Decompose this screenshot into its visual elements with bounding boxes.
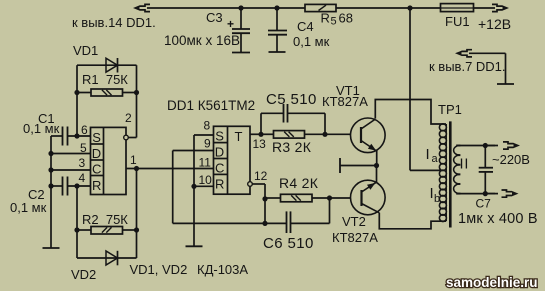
svg-text:VT2: VT2 <box>342 214 366 229</box>
svg-text:a: a <box>432 153 439 165</box>
svg-text:13: 13 <box>253 137 267 151</box>
svg-text:ТР1: ТР1 <box>438 102 462 117</box>
svg-text:T: T <box>235 129 243 144</box>
svg-text:R: R <box>215 177 224 192</box>
svg-text:3: 3 <box>79 156 86 170</box>
svg-text:~220В: ~220В <box>492 152 530 167</box>
svg-text:C: C <box>92 162 101 177</box>
svg-text:R: R <box>321 11 330 26</box>
svg-text:C6 510: C6 510 <box>263 235 314 252</box>
svg-text:4: 4 <box>79 171 86 185</box>
svg-text:R4 2К: R4 2К <box>279 175 319 191</box>
svg-text:к выв.7 DD1.: к выв.7 DD1. <box>429 59 506 74</box>
svg-text:R2 75К: R2 75К <box>82 212 128 227</box>
svg-text:D: D <box>92 146 101 161</box>
svg-text:C5 510: C5 510 <box>266 91 317 108</box>
svg-text:VD1: VD1 <box>73 43 98 58</box>
svg-text:2: 2 <box>125 111 132 125</box>
svg-text:D: D <box>215 145 224 160</box>
svg-text:R: R <box>92 178 101 193</box>
svg-text:S: S <box>215 129 224 144</box>
svg-text:+: + <box>227 17 234 31</box>
svg-text:C4: C4 <box>297 19 314 34</box>
svg-text:10: 10 <box>199 173 213 187</box>
svg-text:C7: C7 <box>476 197 492 211</box>
svg-text:КТ827А: КТ827А <box>322 94 368 109</box>
svg-text:II: II <box>460 157 470 173</box>
svg-text:100мк x 16В: 100мк x 16В <box>164 33 240 48</box>
svg-text:DD1 К561ТМ2: DD1 К561ТМ2 <box>167 98 255 113</box>
svg-text:КД-103А: КД-103А <box>197 262 248 277</box>
svg-text:5: 5 <box>80 141 87 155</box>
svg-text:VD1, VD2: VD1, VD2 <box>130 262 188 277</box>
svg-text:FU1: FU1 <box>445 14 470 29</box>
svg-text:b: b <box>434 193 440 205</box>
svg-text:12: 12 <box>254 169 268 183</box>
svg-text:C: C <box>215 161 224 176</box>
svg-text:C3: C3 <box>206 10 223 25</box>
svg-text:+12В: +12В <box>478 16 511 32</box>
svg-text:5: 5 <box>331 16 337 28</box>
svg-text:КТ827А: КТ827А <box>332 230 378 245</box>
svg-text:R1 75К: R1 75К <box>82 72 128 87</box>
svg-text:9: 9 <box>204 137 211 151</box>
svg-text:1мк x 400 В: 1мк x 400 В <box>458 211 538 227</box>
svg-text:0,1 мк: 0,1 мк <box>10 200 47 215</box>
svg-text:1: 1 <box>130 153 137 167</box>
svg-text:к выв.14 DD1.: к выв.14 DD1. <box>72 15 156 30</box>
svg-text:11: 11 <box>199 156 212 170</box>
svg-text:R3 2К: R3 2К <box>272 139 312 155</box>
svg-text:VD2: VD2 <box>71 267 96 282</box>
svg-text:68: 68 <box>339 11 353 26</box>
svg-text:I: I <box>426 146 430 163</box>
svg-text:0,1 мк: 0,1 мк <box>23 121 60 136</box>
svg-text:S: S <box>92 130 101 145</box>
svg-text:6: 6 <box>81 123 88 137</box>
svg-text:8: 8 <box>204 119 211 133</box>
svg-text:0,1 мк: 0,1 мк <box>293 34 330 49</box>
svg-text:samodelnie.ru: samodelnie.ru <box>446 275 538 290</box>
